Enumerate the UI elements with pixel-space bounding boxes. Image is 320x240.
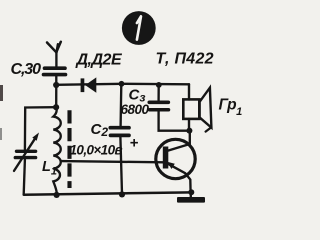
svg-text:Т, П422: Т, П422	[156, 51, 214, 68]
svg-text:Д,Д2Е: Д,Д2Е	[75, 52, 123, 69]
svg-text:10,0×10в: 10,0×10в	[70, 143, 123, 158]
svg-text:6800: 6800	[121, 102, 150, 117]
svg-text:+: +	[130, 135, 139, 152]
svg-text:С,30: С,30	[11, 61, 42, 78]
